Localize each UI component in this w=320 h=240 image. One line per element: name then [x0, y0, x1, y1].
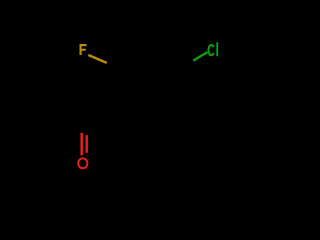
atom label Cl : letter l (drawn as bar) — [216, 42, 218, 56]
C=O double bond : black halves (upper) — [81, 125, 83, 133]
bond C4-Cl : black half — [181, 61, 194, 69]
chemical structure: 4-chloro-2-fluoro-3-methylbenzaldehyde — [0, 0, 300, 176]
bond C4-Cl : chlorine half (green) — [193, 52, 207, 60]
bond C2-F : fluorine half (goldenrod) — [88, 55, 107, 63]
atom label O (drawn as ellipse) — [78, 158, 87, 168]
atom label Cl : letter C (drawn as arc) — [208, 45, 213, 55]
C=O double bond : oxygen halves (red) — [80, 133, 83, 156]
benzene ring (black bonds, C3 top, C2 upper-left, C1 lower-left, C6 bottom, C5 lower-right, C4 upper-right) — [116, 50, 181, 126]
bond C1-CHO carbon — [83, 106, 116, 125]
aromatic inner double-bond lines — [121, 73, 123, 102]
bond C2-F : black half — [102, 61, 116, 69]
methyl bond C3-CH3 — [147, 12, 149, 50]
atom label F (drawn as path) — [80, 44, 87, 55]
